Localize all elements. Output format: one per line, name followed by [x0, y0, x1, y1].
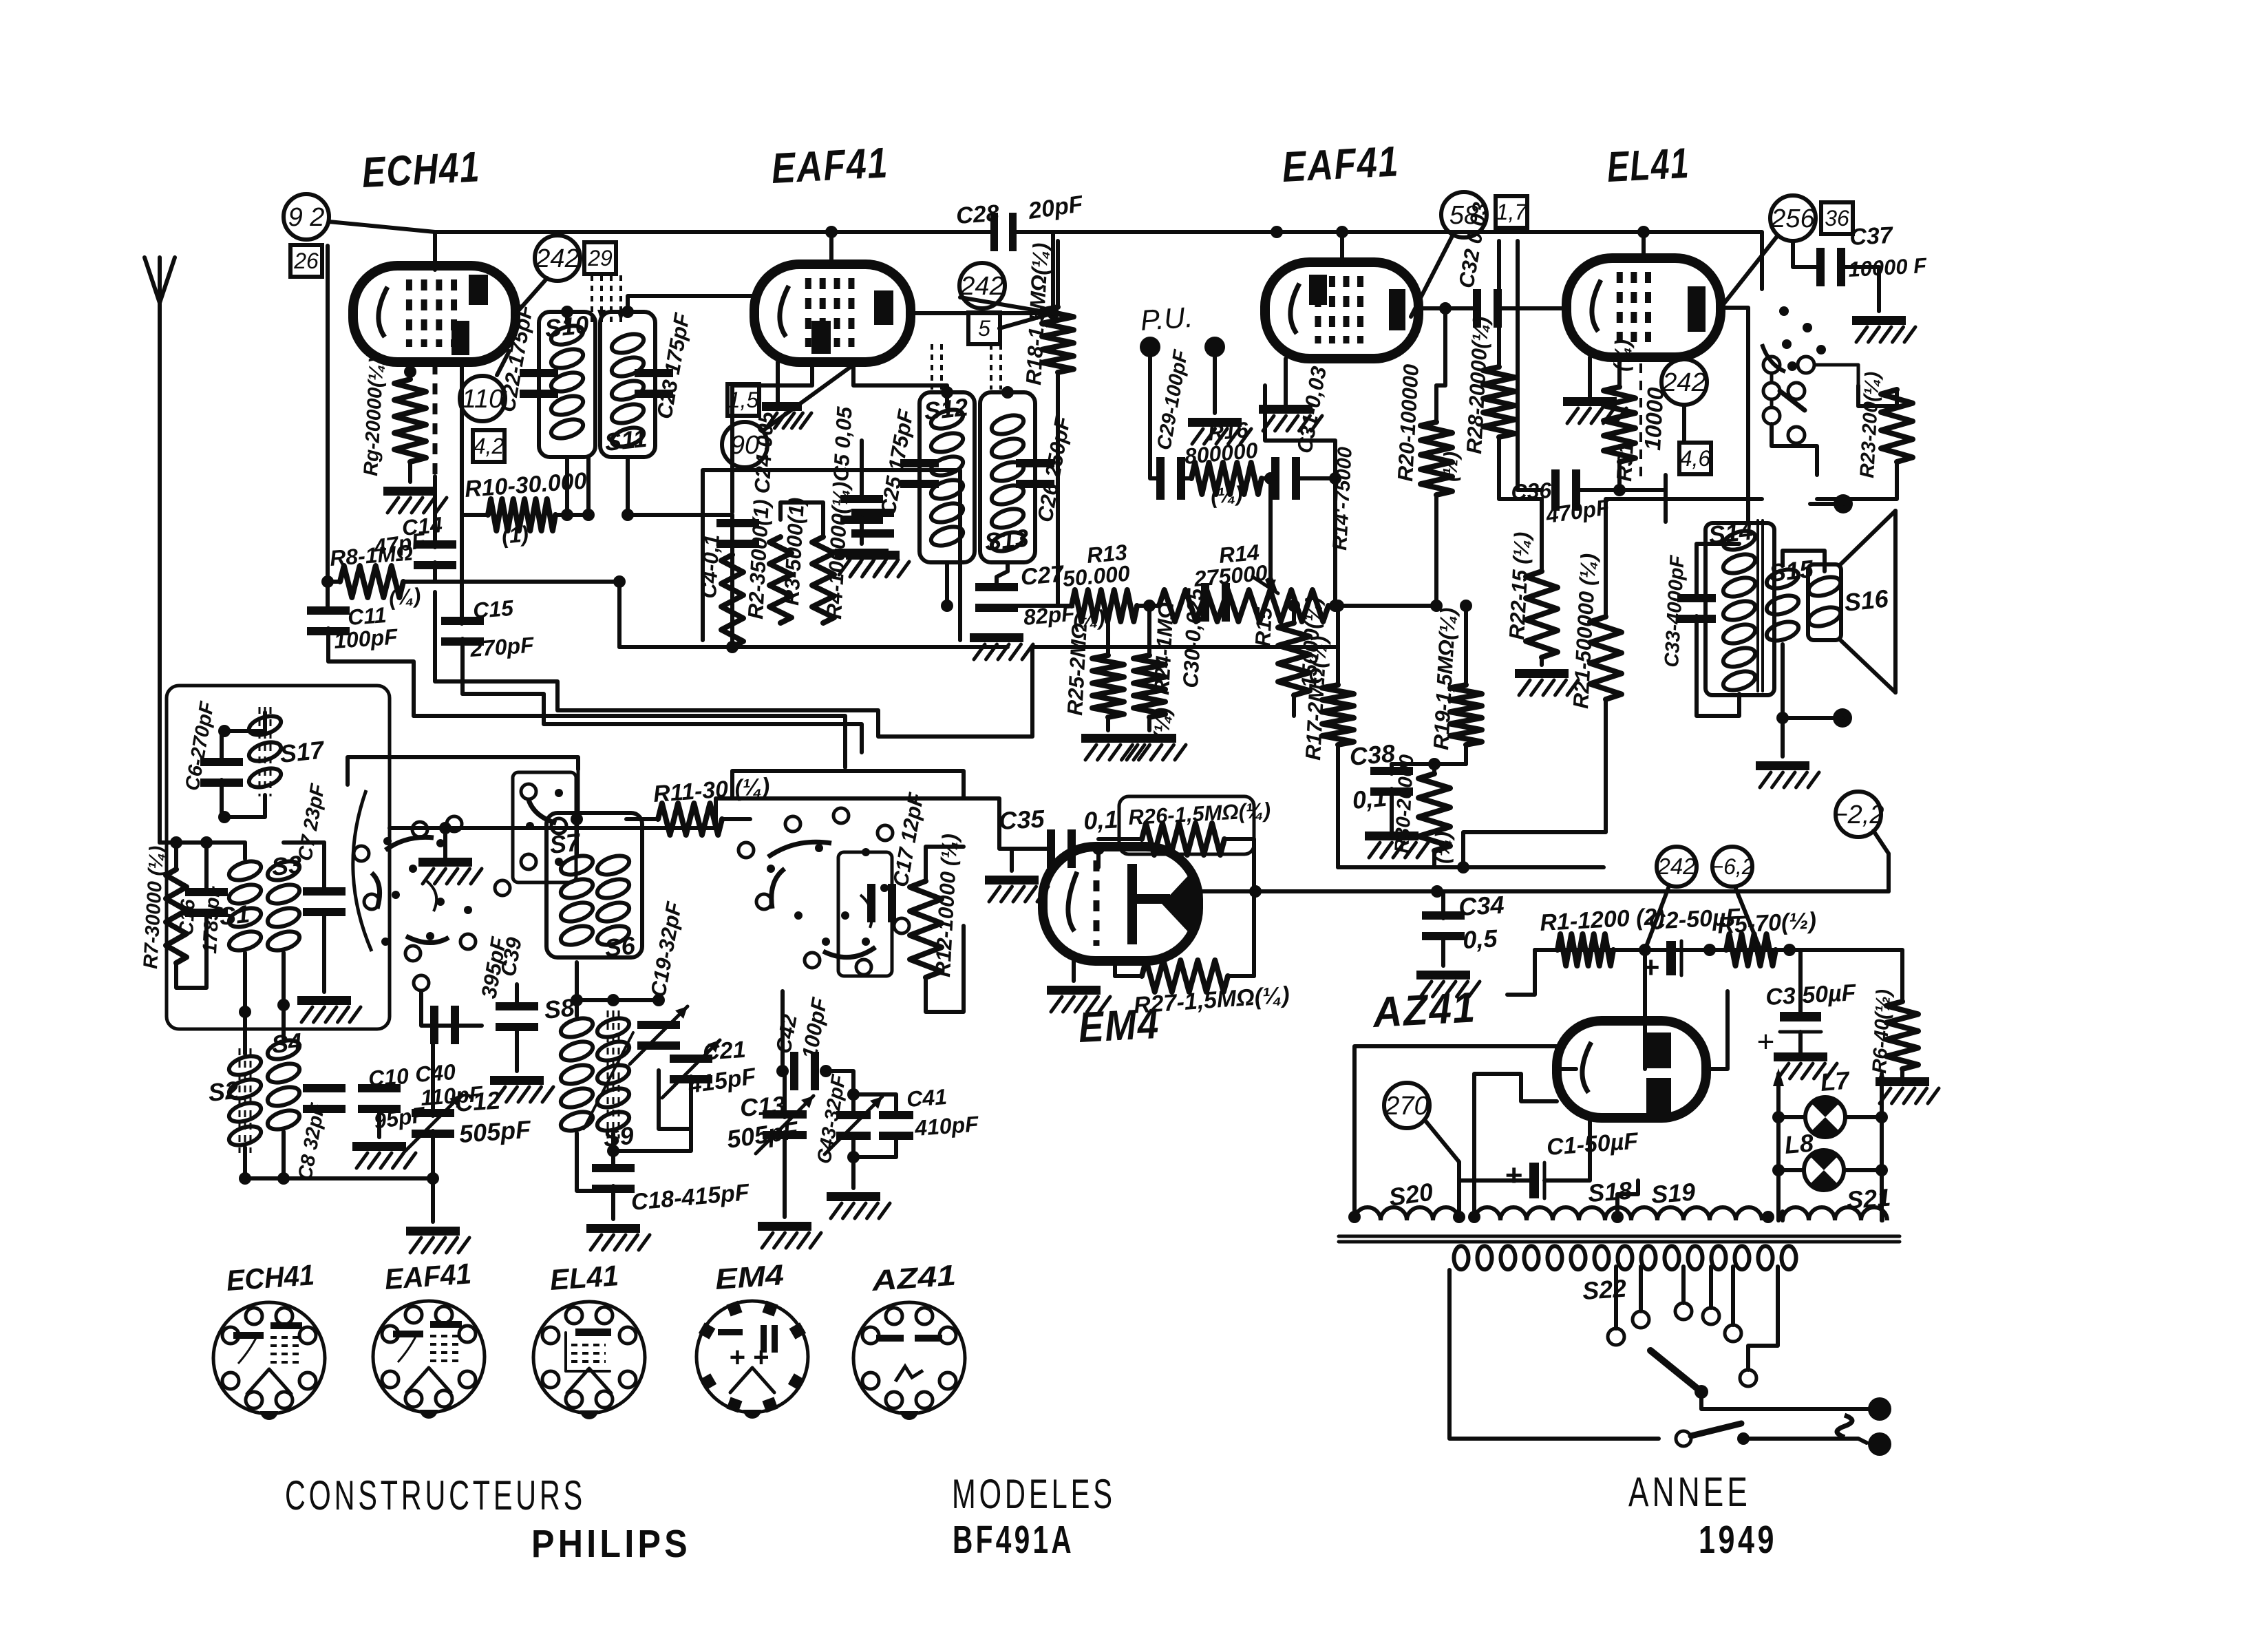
svg-text:C1-50µF: C1-50µF [1546, 1128, 1640, 1161]
resistor R17 2M [1322, 647, 1354, 867]
wire R8 row right [435, 582, 619, 647]
capacitor C3 50uF electrolytic [1756, 1012, 1821, 1059]
capacitor C29 100pF [1156, 457, 1185, 500]
svg-text:S1: S1 [218, 900, 251, 931]
wire R26 right down [1252, 839, 1256, 891]
svg-text:1949: 1949 [1699, 1518, 1777, 1562]
wire anode branch down [1436, 308, 1445, 385]
wire R10 right to S10 bottom [586, 457, 591, 515]
capacitor C33 4000pF [1677, 594, 1716, 623]
junction lamp tl [1772, 1111, 1785, 1123]
wire R23 bottom [1817, 462, 1897, 499]
label 505pF C13 [725, 1116, 800, 1154]
wire 90 lead [763, 365, 853, 431]
ground R6 [1876, 1077, 1939, 1103]
plug pin top [1868, 1397, 1891, 1421]
label R24-1M [1149, 602, 1178, 695]
wire S15 top [1783, 551, 1825, 571]
speaker coil box S16 [1806, 564, 1842, 640]
svg-text:AZ41: AZ41 [870, 1259, 957, 1297]
label 410pF [913, 1112, 980, 1141]
label 10000 [1639, 386, 1668, 451]
label R17-2M(1/4) [1301, 635, 1331, 761]
C43C41 parallel wires [847, 1075, 896, 1188]
coil S1 [226, 858, 263, 954]
label C1-50uF [1546, 1128, 1640, 1161]
wiper arrow to R14 [1265, 580, 1276, 593]
svg-text:EAF41: EAF41 [1281, 138, 1400, 191]
junction S7 top [571, 813, 583, 825]
label R11-30 (1/4) [652, 773, 771, 807]
tube EAF41 V3 [1265, 262, 1419, 359]
svg-text:R6-40(½): R6-40(½) [1869, 988, 1895, 1074]
resistor R20 100000 [1421, 385, 1452, 606]
wire S10 top [565, 312, 569, 324]
wire C5 up [860, 441, 864, 497]
potentiometer R14 275000 [1159, 590, 1328, 622]
wire C31 node up to EAF41b grid [1265, 385, 1335, 478]
base label AZ41 [870, 1259, 957, 1297]
label C43-32pF [813, 1072, 850, 1165]
label C39 [496, 935, 526, 978]
wire R19 top [1464, 606, 1468, 647]
wire C38 down [1390, 789, 1394, 832]
wire PU left down [1148, 357, 1152, 467]
svg-text:C26 250pF: C26 250pF [1032, 414, 1075, 524]
junction R1 right [1639, 944, 1651, 956]
label 470pF [1544, 494, 1612, 528]
svg-text:R1-1200 (2): R1-1200 (2) [1539, 904, 1665, 936]
tap circle 2 [1633, 1311, 1649, 1328]
svg-text:0,1: 0,1 [1351, 783, 1388, 814]
svg-text:S17: S17 [279, 735, 327, 768]
wire S21 right up [1880, 1211, 1884, 1220]
base label EM4 [714, 1258, 785, 1295]
switch wafer A [354, 816, 510, 991]
capacitor C13 505pF variable [756, 1096, 814, 1154]
label EAF41 first [770, 139, 889, 193]
capacitor C21 415pF [662, 1040, 720, 1098]
svg-text:S8: S8 [543, 993, 576, 1024]
svg-text:C33-4000pF: C33-4000pF [1661, 554, 1689, 668]
label ECH41 [361, 143, 481, 197]
wire C34 bottom [1441, 934, 1445, 966]
svg-text:R25-2MΩ: R25-2MΩ [1063, 622, 1092, 716]
label L7 [1819, 1066, 1851, 1097]
junction R19-R30 [1428, 758, 1441, 770]
tap circle 4 [1703, 1308, 1719, 1324]
wire S18 left up [1474, 1074, 1557, 1220]
label S14 [1708, 516, 1754, 549]
capacitor C42 100pF [790, 1052, 819, 1090]
junction S9 top [607, 994, 619, 1006]
wire 242/5 leads [960, 297, 1053, 328]
transformer core [1339, 1236, 1900, 1242]
voltage circle -2,2 [1832, 792, 1884, 837]
label EM4 [1077, 1000, 1160, 1052]
wire C39 down [515, 1027, 519, 1071]
svg-text:C10: C10 [368, 1063, 410, 1091]
svg-text:R11-30 (¼): R11-30 (¼) [652, 773, 771, 807]
wire EM4 output line [1198, 889, 1889, 893]
wire tap3 [1681, 1267, 1686, 1303]
ground C27 [970, 633, 1033, 659]
voltage selector lever [1650, 1351, 1708, 1399]
wire lamp cluster right [1858, 385, 1897, 406]
svg-text:C15: C15 [472, 595, 515, 623]
wire antenna stem [158, 311, 162, 843]
junction IF1 feed [726, 641, 739, 653]
tube base EL41 [533, 1302, 645, 1419]
tube AZ41 V6 [1557, 1021, 1706, 1118]
voltage circle 242 at ECH41 [535, 235, 580, 281]
svg-text:C29-100pF: C29-100pF [1153, 348, 1192, 452]
ground C38 [1365, 832, 1428, 858]
resistor R2 35000 [721, 555, 743, 647]
ground R22 [1515, 669, 1578, 695]
wire 270 lead [1425, 1120, 1459, 1220]
wire EL41 cathode [1588, 357, 1592, 397]
coil S10 [549, 322, 585, 442]
wire antenna to coils [160, 840, 245, 845]
label C12 [454, 1086, 502, 1117]
svg-text:410pF: 410pF [913, 1112, 980, 1141]
label R26-1,5M(1/4) [1128, 798, 1271, 829]
voltage circle 92 [284, 194, 329, 240]
label 47pF [372, 528, 427, 560]
svg-text:ANNEE: ANNEE [1628, 1469, 1751, 1515]
wire C33 bottom [1697, 616, 1739, 716]
label 0,5 [1462, 924, 1498, 954]
label (1/4) R24 [1149, 707, 1175, 740]
resistor R1 1200 [1558, 934, 1613, 966]
ground R24 [1123, 734, 1186, 760]
label S15 [1768, 554, 1816, 587]
current box 36 [1821, 202, 1853, 234]
label C7 23pF [294, 781, 329, 862]
base label EL41 [549, 1259, 619, 1296]
label S8 [543, 993, 576, 1024]
winding S18 S19 [1474, 1207, 1762, 1220]
label (1/4) R16 [1209, 481, 1244, 509]
capacitor C1 50uF electrolytic [1505, 1158, 1544, 1198]
resistor R10 30000 [462, 499, 588, 531]
wire R15 top [1292, 606, 1296, 623]
wire S15 bottom down [1781, 644, 1785, 756]
svg-text:S9: S9 [602, 1121, 635, 1152]
label R4-100000(1/4) [822, 481, 853, 619]
svg-text:505pF: 505pF [458, 1115, 533, 1148]
terminal speaker top [1834, 494, 1853, 513]
resistor R12 10000 [910, 881, 942, 977]
tube EAF41 V2 [754, 264, 911, 362]
switch cluster lamp selector [1762, 306, 1858, 443]
wire L7 branch r [1845, 1115, 1882, 1119]
svg-text:R12-10000 (¼): R12-10000 (¼) [931, 833, 962, 977]
svg-text:4,6: 4,6 [1680, 446, 1711, 471]
label C11 [347, 602, 387, 630]
capacitor C6 270pF [200, 758, 243, 787]
capacitor C12 505pF variable [404, 1094, 462, 1152]
svg-text:R31: R31 [1612, 442, 1638, 483]
voltage circle 242 ps [1657, 847, 1697, 887]
wire C3 bottom [1798, 1032, 1803, 1052]
coil S4 [265, 1037, 301, 1133]
wire cluster A outline [348, 757, 578, 785]
wire C32 right to EL41 grid [1500, 306, 1566, 310]
wire S1-S2 link [243, 953, 247, 1054]
capacitor C31 0,03 [1271, 457, 1300, 500]
wire R21 top [1606, 499, 1762, 617]
wire ECH41 grid lead solid [433, 476, 437, 547]
wire lamp right rail [1880, 1074, 1884, 1220]
ground EM4 [1047, 986, 1110, 1012]
svg-text:R15: R15 [1251, 606, 1277, 647]
ground C10 [352, 1142, 416, 1168]
wire R14prime [1333, 478, 1337, 606]
wire C16 top lead [204, 843, 209, 890]
wire S21 left up [1781, 1211, 1785, 1220]
svg-text:S19: S19 [1650, 1178, 1697, 1209]
label R27-1,5M(1/4) [1133, 982, 1290, 1019]
switch wafer B2 box [838, 852, 892, 976]
wire staircase 1 [463, 694, 862, 752]
base label ECH41 [225, 1258, 315, 1297]
svg-text:EL41: EL41 [1606, 140, 1690, 191]
svg-text:100pF: 100pF [333, 624, 399, 653]
svg-text:270: 270 [1384, 1092, 1428, 1121]
label R25-2M [1063, 622, 1092, 716]
svg-text:MODELES: MODELES [952, 1471, 1116, 1517]
wire lamp left rail [1776, 1074, 1781, 1220]
svg-text:C30-0,025: C30-0,025 [1178, 587, 1208, 688]
wire 242 to ECH41 anode [516, 278, 547, 314]
EM4 display wedge [1162, 870, 1193, 938]
wire bottom of IF1 to right [628, 515, 732, 647]
capacitor C40 110pF [430, 1006, 459, 1044]
ground PU right [1188, 418, 1251, 444]
wire S3C7 top [284, 840, 324, 845]
wire R17 top [1336, 606, 1340, 647]
wire C14 down [433, 562, 437, 582]
wire EAF41b anode to C32 [1419, 306, 1475, 310]
coil S12 [928, 406, 965, 549]
junction R14p top [1329, 472, 1341, 485]
wire cluster B outline [732, 771, 964, 798]
junction lamp tr [1876, 1111, 1888, 1123]
wire 242ps lead [1645, 888, 1668, 950]
tube ECH41 V1 [353, 266, 516, 362]
junction top bus mid [1271, 226, 1283, 238]
coil S2 [226, 1048, 263, 1153]
label C16 [176, 898, 200, 937]
junction R5 right [1783, 944, 1796, 956]
wire EAF41b top to bus [1340, 232, 1344, 262]
resistor R5 70 [1726, 934, 1776, 966]
junction EM4 line left [1249, 885, 1262, 898]
label C36 [1510, 478, 1552, 505]
resistor R15 15000 [1278, 623, 1310, 716]
label R1-1200 (2) [1539, 904, 1665, 936]
label S6 [604, 931, 637, 962]
label S2 [207, 1076, 240, 1107]
wire EAF41a to S12 top [853, 362, 947, 407]
label R10-30.000 [464, 468, 588, 502]
tap circle 5 [1725, 1325, 1741, 1342]
label R19-1,5M(1/4) [1429, 607, 1460, 750]
label R14p-75000 [1329, 446, 1357, 551]
capacitor C43 32pF [825, 1097, 882, 1154]
label C25 175pF [875, 407, 918, 517]
junction top bus at EAF41b [1336, 226, 1348, 238]
label C31-0,03 [1292, 365, 1331, 456]
ground C39 [490, 1076, 553, 1102]
wire switch to plug [1743, 1439, 1867, 1443]
tube base AZ41 [853, 1302, 965, 1420]
svg-text:C41: C41 [906, 1084, 948, 1112]
label R13 [1085, 540, 1128, 568]
terminal PU right [1204, 337, 1225, 357]
wire staircase 2 [435, 592, 1032, 737]
wire C42 left up [780, 991, 785, 1071]
svg-text:C21: C21 [702, 1037, 747, 1066]
label (1/4) R31 [1609, 339, 1635, 372]
label R21-500000 (1/4) [1569, 553, 1601, 709]
wire C35 ground lead [1010, 849, 1014, 871]
wire R28 top [1497, 241, 1501, 324]
resistor R8 1M [328, 566, 435, 597]
svg-text:29: 29 [587, 246, 613, 271]
coil S13 [989, 412, 1026, 555]
ground switch A top [418, 858, 482, 884]
junction R24 top [1143, 600, 1156, 612]
junction S8 top [571, 994, 583, 1006]
wire bus y1260 [1338, 865, 1604, 869]
svg-text:−6,2: −6,2 [1710, 854, 1754, 879]
label C42 [771, 1013, 801, 1055]
resistor R21 500000 [1590, 617, 1622, 699]
svg-text:C4-0,1: C4-0,1 [697, 534, 724, 600]
label C37 [1849, 222, 1894, 251]
coupling dashes EAF41a-S12 [932, 344, 1001, 390]
svg-text:R8-1MΩ: R8-1MΩ [329, 540, 414, 571]
IF transformer box S11 [600, 312, 655, 457]
speaker cone [1839, 511, 1895, 692]
IF transformer box S13 [980, 392, 1035, 562]
junction S10 top [561, 306, 573, 318]
svg-text:(¼): (¼) [387, 583, 422, 611]
label C4-0,1 [697, 534, 724, 600]
wire lamp switch down [1772, 424, 1817, 475]
junction S11 bottom [621, 509, 634, 521]
svg-text:270pF: 270pF [469, 633, 535, 662]
wire C7 top lead [322, 843, 326, 889]
junction S20 left [1348, 1211, 1361, 1223]
junction R16-C31 [1264, 472, 1277, 485]
voltage circle 270 [1384, 1083, 1430, 1128]
ground EAF41b cathode [1259, 405, 1322, 431]
wire C13 down [783, 1132, 787, 1217]
wire S11 bottom down [626, 457, 630, 515]
ground C34 [1416, 971, 1480, 997]
junction S19 right [1762, 1211, 1774, 1223]
label S22 [1582, 1274, 1628, 1305]
junction lamp br [1876, 1164, 1888, 1176]
ground C3 [1774, 1052, 1837, 1079]
wire 46 node down [1664, 490, 1668, 522]
wire C37 right [1843, 267, 1879, 311]
junction R14p bottom [1329, 600, 1341, 612]
junction bus EL41 [1637, 226, 1650, 238]
wire C38 link [1392, 762, 1434, 766]
svg-text:R5-70(½): R5-70(½) [1717, 908, 1816, 939]
wire C5 down [860, 517, 864, 544]
wire PU right down [1213, 357, 1217, 413]
wire R8 left rail [326, 582, 330, 611]
svg-text:L7: L7 [1819, 1066, 1851, 1097]
wire EAF41a bottom tap [732, 362, 812, 512]
ground R25 [1081, 734, 1145, 760]
label C29-100pF [1153, 348, 1192, 452]
resistor R6 40 [1887, 1002, 1918, 1069]
capacitor C27 82pF [975, 583, 1018, 612]
wire -6,2 lead [1736, 889, 1761, 950]
svg-text:C3 50µF: C3 50µF [1765, 979, 1857, 1010]
label (1/2) R20 [1439, 451, 1463, 482]
junction S3 bottom [277, 999, 290, 1011]
wire S9 bottom [611, 1133, 615, 1167]
capacitor C32 0,03 [1473, 289, 1502, 328]
IF transformer box S10 [539, 312, 595, 457]
svg-text:PHILIPS: PHILIPS [531, 1522, 691, 1566]
S9 trim arrow [584, 1032, 633, 1129]
wire R21 bottom route [1463, 699, 1606, 867]
svg-text:C12: C12 [454, 1086, 502, 1117]
junction S1 bottom [239, 1006, 251, 1018]
wire R22 top [1540, 499, 1544, 571]
label R15 [1251, 606, 1277, 647]
capacitor C5 0,05 [840, 495, 883, 524]
label C6-270pF [181, 699, 218, 792]
wire 2,2 node [1873, 831, 1889, 891]
wire C1 row [1459, 1178, 1529, 1183]
coil S17 [246, 707, 283, 796]
wire R7C16 bottom [176, 915, 206, 988]
label C41 [906, 1084, 948, 1112]
wire S17 bottom link [222, 780, 265, 817]
junction R8 rail [321, 575, 334, 588]
label S4 [270, 1028, 304, 1059]
wire C19C21 right rail [659, 1070, 691, 1129]
svg-text:5: 5 [978, 316, 990, 341]
label R23-200(1/4) [1856, 371, 1884, 478]
capacitor C4 0,1 [716, 519, 759, 548]
switch wafer A2 box [513, 772, 576, 882]
label R2-35000(1) C24-005 [743, 411, 778, 620]
voltage circle 90 [722, 422, 767, 467]
wire S2S4 bottom bus [245, 1147, 433, 1178]
label C18-415pF [630, 1179, 751, 1216]
coil S8 [558, 1015, 595, 1134]
wire plug top lead [1858, 1407, 1868, 1411]
wire C11 down [328, 628, 414, 716]
ground EL41 cathode [1563, 397, 1626, 423]
label C15 [472, 595, 515, 623]
label C14 [401, 512, 443, 540]
resistor R25 2M [1092, 623, 1124, 730]
svg-text:−2,2: −2,2 [1832, 801, 1884, 829]
label 275000 [1192, 560, 1268, 591]
